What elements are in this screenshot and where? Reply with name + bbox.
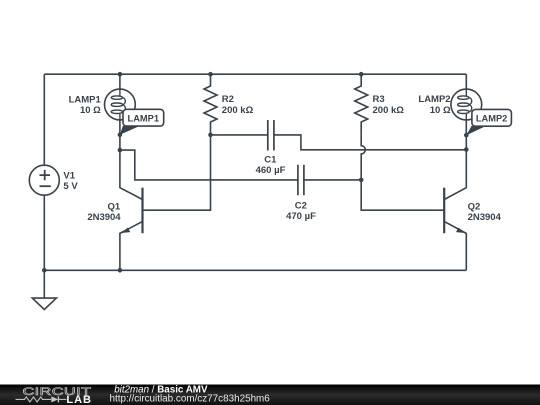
svg-text:V1: V1	[63, 170, 75, 181]
wire left rail to V1	[43, 74, 45, 165]
svg-text:200 kΩ: 200 kΩ	[373, 105, 405, 116]
wire R2 bottom to Q1 base	[143, 135, 210, 210]
capacitor C2	[298, 165, 304, 195]
svg-text:R3: R3	[373, 94, 385, 105]
footer logo squiggle	[16, 397, 67, 402]
svg-text:LAMP1: LAMP1	[128, 113, 160, 123]
node lamp1 bottom / C2 branch	[118, 148, 123, 153]
node bottom rail / Q1 emitter	[118, 268, 123, 273]
wire Q2 emitter	[444, 221, 466, 270]
lamp LAMP1	[105, 89, 136, 120]
wire lamp1 top lead	[119, 74, 121, 89]
wire R3 bottom with hop to Q2 base	[361, 135, 444, 210]
node top rail / lamp1	[118, 72, 123, 77]
wire C1 right with step down	[274, 135, 466, 150]
svg-text:C1: C1	[264, 155, 277, 166]
wire lamp2 top lead	[465, 74, 467, 89]
label callout LAMP1	[120, 109, 164, 135]
svg-text:R2: R2	[222, 94, 234, 105]
svg-text:C2: C2	[295, 201, 307, 212]
wire top rail	[44, 73, 466, 75]
wire ground stem	[43, 270, 45, 298]
svg-text:5 V: 5 V	[63, 181, 78, 192]
wire lamp1 bottom lead	[119, 120, 121, 150]
lamp LAMP2	[451, 89, 482, 120]
node C2 / R3	[359, 178, 364, 183]
node top rail / R2	[208, 72, 213, 77]
wire C2 left jog	[120, 150, 298, 180]
wire bottom rail	[44, 269, 466, 271]
footer bar	[0, 385, 540, 405]
capacitor C1	[268, 120, 274, 151]
svg-text:460 µF: 460 µF	[256, 165, 286, 176]
transistor Q1 body	[141, 188, 143, 234]
transistor Q2 emitter arrow	[456, 228, 465, 234]
wire C2 right	[304, 179, 361, 181]
svg-text:LAMP1: LAMP1	[69, 95, 102, 106]
node lamp2 bottom / C1 net	[464, 147, 469, 152]
wire Q2 collector	[444, 150, 466, 200]
transistor Q1 emitter arrow	[121, 228, 130, 234]
label callout LAMP2	[466, 109, 511, 135]
resistor R3	[355, 74, 368, 135]
node top rail / R3	[359, 72, 364, 77]
transistor Q2 body	[443, 188, 445, 234]
svg-text:http://circuitlab.com/cz77c83h: http://circuitlab.com/cz77c83h25hm6	[110, 393, 271, 404]
wire lamp2 bottom lead	[465, 120, 467, 150]
node lamp2 anchor	[464, 133, 469, 138]
svg-text:LAMP2: LAMP2	[476, 113, 508, 123]
voltage source V1	[29, 165, 59, 195]
node R2 bottom	[208, 133, 213, 138]
wire V1 bottom to bottom rail	[43, 195, 45, 270]
footer logo diode	[51, 396, 58, 402]
svg-text:470 µF: 470 µF	[286, 211, 316, 222]
wire Q1 collector	[120, 150, 143, 199]
svg-text:10 Ω: 10 Ω	[80, 105, 101, 116]
svg-text:LAMP2: LAMP2	[418, 94, 450, 105]
svg-text:2N3904: 2N3904	[468, 212, 502, 223]
resistor R2	[204, 74, 217, 135]
svg-text:200 kΩ: 200 kΩ	[222, 105, 254, 116]
footer logo CIRCUIT	[23, 385, 92, 398]
svg-text:10 Ω: 10 Ω	[430, 105, 451, 116]
wire C1 left	[211, 134, 268, 136]
ground	[32, 298, 56, 309]
svg-text:2N3904: 2N3904	[87, 212, 121, 223]
wire Q1 emitter	[120, 221, 143, 270]
svg-text:LAB: LAB	[66, 394, 92, 405]
node lamp1 anchor	[118, 132, 123, 137]
node bottom rail / V1 ground	[42, 268, 47, 273]
